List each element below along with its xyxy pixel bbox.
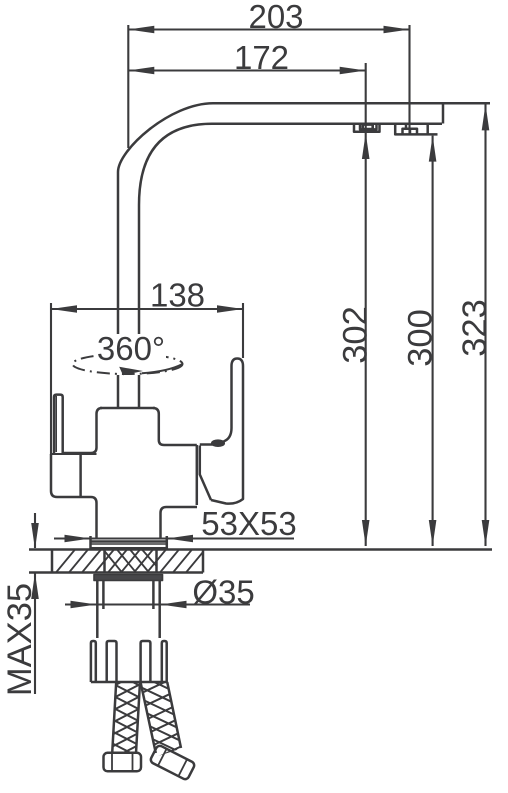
svg-text:203: 203 — [248, 0, 303, 35]
svg-text:323: 323 — [456, 299, 494, 357]
svg-text:172: 172 — [234, 39, 289, 76]
svg-text:MAX35: MAX35 — [1, 583, 39, 696]
svg-text:302: 302 — [337, 306, 375, 364]
svg-text:300: 300 — [402, 309, 440, 367]
svg-text:360°: 360° — [97, 330, 165, 367]
svg-text:Ø35: Ø35 — [192, 574, 254, 611]
svg-text:138: 138 — [150, 277, 205, 314]
svg-text:53X53: 53X53 — [201, 505, 296, 542]
